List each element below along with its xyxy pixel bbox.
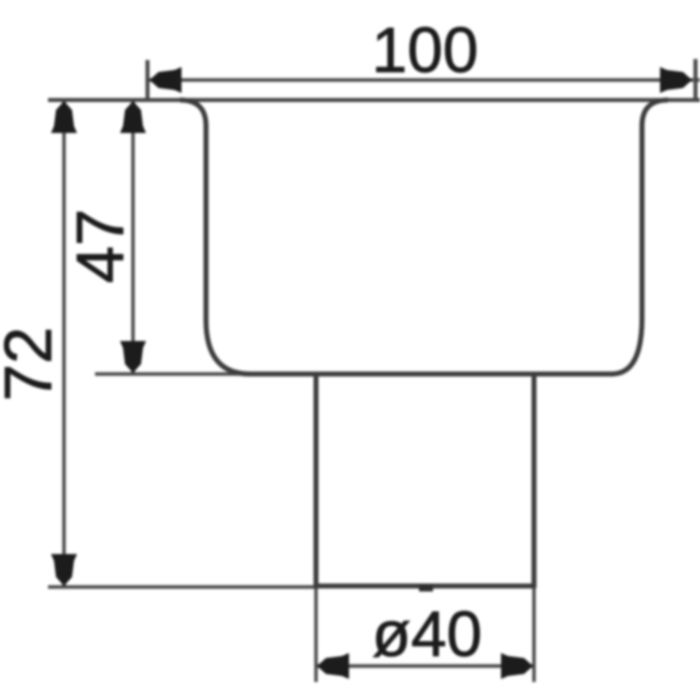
svg-text:ø40: ø40	[372, 598, 482, 670]
svg-text:72: 72	[0, 327, 66, 402]
svg-text:47: 47	[63, 209, 138, 284]
svg-text:100: 100	[372, 14, 479, 86]
